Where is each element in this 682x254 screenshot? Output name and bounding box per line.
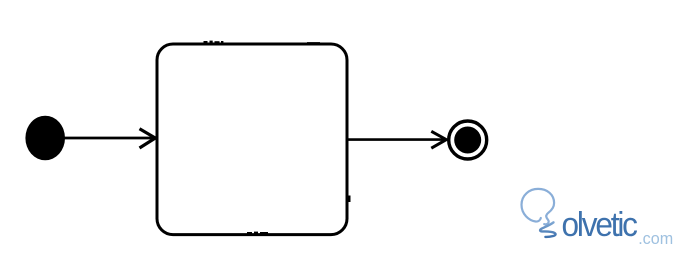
artifact marks bottom edge bbox=[247, 232, 268, 234]
svg-text:.com: .com bbox=[638, 229, 673, 248]
svg-text:olvetic: olvetic bbox=[562, 206, 638, 244]
artifact marks top edge bbox=[204, 41, 224, 44]
artifact mark right edge bbox=[348, 196, 350, 203]
arrowhead into final state bbox=[431, 131, 446, 148]
wire: initial state to state box bbox=[64, 137, 153, 140]
wire: state box to final state bbox=[349, 138, 445, 141]
final state (bullseye) bbox=[449, 121, 487, 159]
arrowhead into state box bbox=[140, 129, 156, 148]
state box (rounded rectangle) bbox=[157, 44, 347, 235]
artifact mark top-right edge bbox=[307, 42, 320, 44]
logo S swirl bbox=[540, 222, 555, 237]
initial state (filled circle) bbox=[25, 116, 65, 161]
logo bulb outline bbox=[522, 189, 555, 224]
